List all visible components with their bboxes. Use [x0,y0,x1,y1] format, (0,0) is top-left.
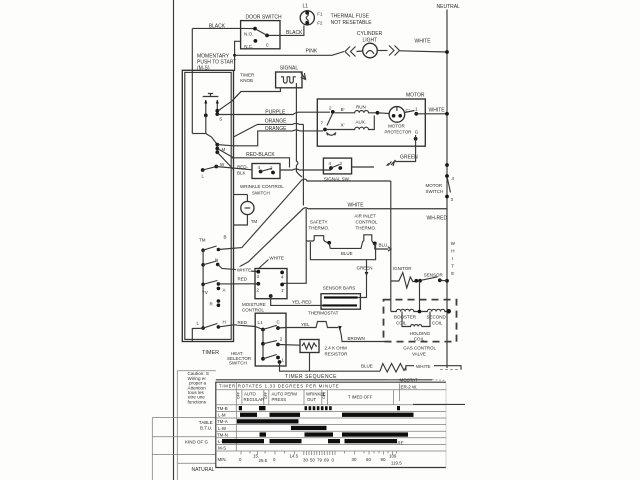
contact M dots [215,143,219,147]
chart bars row TM-B [239,406,400,410]
svg-text:CONTROL: CONTROL [242,308,264,313]
svg-text:RESISTOR: RESISTOR [325,352,349,357]
svg-text:W: W [220,162,225,167]
door switch SW1 box [241,15,282,50]
wire wrinkle to signal switch [280,169,331,170]
wire N.C. loop to pink [235,41,241,71]
svg-text:AIR INLET: AIR INLET [354,214,376,219]
wire left feed column [192,133,206,135]
svg-text:I: I [452,256,453,261]
svg-text:BLUE: BLUE [361,364,373,369]
wire neutral vertical bus [446,10,448,369]
motor protector U [389,107,405,123]
svg-text:CYLINDER: CYLINDER [357,31,383,37]
label white on N wire [236,267,251,273]
svg-text:PINK: PINK [306,49,318,55]
svg-text:WHITE: WHITE [415,39,432,45]
svg-text:2: 2 [280,337,283,342]
chart bar row TM-A [237,419,299,423]
svg-text:W: W [451,241,456,246]
svg-text:ORANGE: ORANGE [265,119,287,125]
coil second [422,309,449,325]
svg-text:KIND OF G: KIND OF G [185,440,209,445]
timer box inner [185,72,231,339]
wire red H to heat selector [218,319,263,330]
connector chevrons right [377,50,387,52]
svg-text:T IMED OFF: T IMED OFF [348,395,373,400]
contact S dots [204,114,208,118]
sensor switch [414,273,449,283]
sensor bars [321,260,367,309]
svg-text:69: 69 [324,458,329,463]
svg-text:SWITCH: SWITCH [252,191,270,196]
svg-text:M-S: M-S [218,446,226,451]
svg-text:HOLDING: HOLDING [410,331,431,336]
svg-text:NOT RESETABLE: NOT RESETABLE [331,20,373,26]
svg-text:AUX.: AUX. [356,120,367,125]
gas control valve dashed box [384,300,457,342]
svg-text:SAFETY: SAFETY [310,220,328,225]
coil holding [402,312,431,342]
thermostat heat [278,311,391,342]
svg-text:SWITCH: SWITCH [426,189,444,194]
wire diagonal N to white [218,208,308,272]
wire lower contact column [202,250,204,328]
svg-text:MOISTURE: MOISTURE [242,302,266,307]
svg-text:B.T.U.: B.T.U. [200,426,212,431]
heater zigzag bottom [380,364,406,373]
svg-text:REGULAR: REGULAR [244,397,265,402]
svg-text:30: 30 [303,458,308,463]
svg-text:25.5: 25.5 [259,458,268,463]
chart bars row L-M 1 [240,413,414,417]
svg-text:COIL: COIL [432,321,443,326]
timer chart frame [216,382,446,467]
svg-text:4: 4 [452,176,455,181]
svg-text:RE: RE [398,440,404,445]
svg-text:MOTOR: MOTOR [388,124,405,129]
svg-text:SENSOR: SENSOR [424,273,444,278]
wire ignitor feed vertical [390,181,392,312]
wire signal box feed [232,88,280,101]
svg-text:VALVE: VALVE [412,352,426,357]
svg-text:TM-A: TM-A [217,419,228,424]
svg-text:TIMER SEQUENCE: TIMER SEQUENCE [285,374,337,380]
svg-text:TM-N: TM-N [217,432,228,437]
svg-text:B': B' [341,107,345,112]
svg-text:NATURAL: NATURAL [192,467,215,473]
svg-text:1: 1 [282,358,285,363]
svg-text:90.: 90. [381,457,387,462]
signal switch box [323,158,351,181]
svg-text:7: 7 [321,121,324,126]
contact R dots [217,299,221,303]
svg-text:THERMOSTAT: THERMOSTAT [308,311,339,316]
svg-text:TV: TV [202,290,208,295]
motor timer TM [234,195,258,226]
svg-text:30: 30 [352,457,357,462]
svg-text:TM-B: TM-B [217,406,228,411]
svg-text:MOTOR: MOTOR [426,183,443,188]
svg-text:0: 0 [239,457,242,462]
wire blu to ignitor bus [375,243,389,249]
svg-text:60: 60 [366,457,371,462]
svg-text:50: 50 [310,458,315,463]
signal buzzer box [276,65,306,88]
svg-text:SWITCH: SWITCH [229,361,247,366]
left page border line [173,0,175,480]
svg-text:N.O.: N.O. [244,31,253,36]
svg-text:KNOB: KNOB [240,78,253,83]
svg-text:1: 1 [415,107,418,112]
svg-text:SIGNAL: SIGNAL [280,65,299,71]
svg-text:A: A [223,288,226,293]
svg-text:2: 2 [329,106,332,111]
svg-text:RUN: RUN [356,105,366,110]
svg-text:14.5: 14.5 [290,454,299,459]
svg-text:TABLE: TABLE [199,420,213,425]
svg-text:OFF: OFF [322,392,326,399]
svg-text:L-M: L-M [218,413,226,418]
svg-text:L: L [197,321,200,326]
svg-text:F2: F2 [317,21,323,26]
svg-text:TM: TM [199,238,206,243]
svg-text:THERMAL FUSE: THERMAL FUSE [331,14,370,20]
svg-text:IGNITOR: IGNITOR [393,266,412,271]
svg-text:H: H [223,320,226,325]
svg-text:WH-RED: WH-RED [427,216,448,222]
svg-text:4: 4 [281,274,284,279]
chart row labels [217,406,228,462]
thermostat safety thermo [282,209,331,285]
svg-text:2: 2 [340,161,343,166]
contact N [201,263,205,267]
wire blue bottom [280,362,381,371]
svg-text:WHITE: WHITE [416,364,431,369]
momentary push to start label [197,54,236,72]
svg-text:L1: L1 [303,4,309,10]
timer box outer [182,70,233,341]
chart row grid lines [216,404,465,451]
connector chevrons left [345,47,356,57]
svg-text:BLU.: BLU. [379,243,389,248]
svg-text:3: 3 [451,197,454,202]
thermal fuse F1/F2 with L1 terminal [300,4,372,27]
wire signal to junction (vertical crossing bus) [296,83,302,177]
svg-text:MIN.: MIN. [218,457,227,462]
svg-text:H: H [451,249,454,254]
svg-text:WRINKLE CONTROL: WRINKLE CONTROL [240,184,284,189]
svg-text:X': X' [341,123,345,128]
svg-text:N.C.: N.C. [244,44,253,49]
svg-text:1': 1' [281,288,285,293]
svg-text:COIL: COIL [414,337,425,342]
wire diagonal B to ignitor feed [218,179,312,249]
svg-text:AUTO PERM: AUTO PERM [272,392,298,397]
moisture control box [242,260,287,313]
svg-text:WHITE: WHITE [429,108,446,114]
wire timer knob pointer [219,92,242,111]
wire drop to coils [419,281,421,312]
svg-text:C: C [277,320,281,325]
label white vertical letters [451,241,456,276]
svg-text:MOTOR: MOTOR [406,93,425,99]
chart bars row L-M 2 [222,439,404,445]
svg-text:DOOR SWITCH: DOOR SWITCH [246,15,282,21]
wire red A to moisture [218,277,258,284]
svg-text:2: 2 [257,288,260,293]
svg-text:OFF: OFF [237,392,241,399]
chart axis numbers [239,454,402,466]
thermostat air inlet control [329,214,378,249]
svg-text:T: T [451,264,454,269]
chart bars row TM-N [260,432,409,436]
svg-text:YEL: YEL [301,322,310,327]
svg-text:0: 0 [273,457,276,462]
svg-text:BROWN: BROWN [348,336,365,341]
svg-text:109: 109 [389,454,397,459]
svg-text:TM: TM [251,219,258,224]
ground motor [387,160,396,166]
svg-text:functions: functions [188,399,207,404]
svg-text:F1: F1 [317,12,323,17]
svg-text:BOOSTER: BOOSTER [394,315,417,320]
svg-text:G: G [415,130,419,135]
svg-text:TIMER: TIMER [202,350,219,356]
svg-text:OFF: OFF [264,392,268,399]
svg-text:S: S [219,117,222,122]
resistor 2.4 K OHM [278,340,348,372]
label red-blk [237,164,249,177]
svg-text:L1: L1 [258,320,264,325]
coil booster [391,309,420,325]
svg-text:RED-BLACK: RED-BLACK [246,152,275,158]
heat selector switch box [227,313,286,366]
svg-text:79: 79 [317,458,322,463]
svg-text:THERMO.: THERMO. [309,226,330,231]
svg-text:WHITE: WHITE [269,256,284,261]
wire signal sw right stub [352,166,374,168]
svg-text:WHITE: WHITE [237,268,252,273]
svg-text:R: R [210,302,214,307]
svg-text:GREEN: GREEN [357,266,373,271]
motor box [317,93,425,147]
svg-text:L-W: L-W [218,426,227,431]
chart column headers [237,392,373,403]
svg-text:NEUTRAL: NEUTRAL [437,4,461,10]
svg-text:GAS CONTROL: GAS CONTROL [403,346,436,351]
rating table left [152,371,216,480]
ignitor [391,266,417,288]
svg-text:0: 0 [332,458,335,463]
svg-text:E: E [451,271,454,276]
svg-text:119.5: 119.5 [391,461,402,466]
svg-text:THERMO.: THERMO. [356,226,377,231]
contact L-H [201,326,205,330]
label part number right [388,378,418,402]
svg-text:PRESS: PRESS [272,397,287,402]
svg-text:AUTO: AUTO [244,392,257,397]
svg-text:TIMER ROTATES 1.33 DEGREES PER: TIMER ROTATES 1.33 DEGREES PER MINUTE [219,383,339,388]
contact T terminal bar [203,94,219,97]
label white bracket bottom [406,363,461,371]
svg-text:RED: RED [238,320,248,325]
svg-text:PROTECTOR: PROTECTOR [385,130,412,135]
svg-text:3: 3 [257,274,260,279]
svg-text:BLUE: BLUE [341,251,353,256]
svg-text:ER-2 W.: ER-2 W. [401,384,418,389]
motor switch on neutral [426,163,455,202]
svg-text:SENSOR BARS: SENSOR BARS [323,286,356,291]
svg-text:CONTROL: CONTROL [356,220,378,225]
svg-text:TIMER: TIMER [240,73,255,78]
svg-text:YEL-RED: YEL-RED [292,299,312,304]
svg-text:B: B [224,235,227,240]
contact W [214,165,218,169]
svg-text:4: 4 [329,161,332,166]
svg-text:C: C [266,42,270,47]
wrinkle control switch box [240,164,284,196]
svg-text:4: 4 [258,165,261,170]
svg-text:RED: RED [238,277,248,282]
chart axis ticks [241,451,397,455]
svg-text:WHITE: WHITE [348,203,365,209]
contact T arrows [205,100,207,115]
svg-text:OUT: OUT [307,397,316,402]
svg-text:BLK: BLK [237,171,246,176]
svg-text:L: L [202,174,205,179]
svg-text:2.4 K OHM: 2.4 K OHM [325,346,348,351]
wire W to wrinkle box [216,167,252,170]
lamp cylinder light [357,31,383,58]
caution text block [188,371,209,404]
chart bar row L-W [291,426,327,430]
wire dashed tail [440,369,460,371]
